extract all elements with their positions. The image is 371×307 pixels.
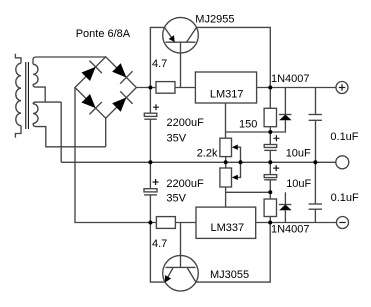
- bridge rectifier Ponte 6/8A : diamond edges: [75, 57, 136, 118]
- node ADJ+ junction dot: [268, 130, 272, 134]
- capacitor C4 10uF (bottom): [264, 162, 279, 192]
- svg-text:150: 150: [239, 119, 257, 131]
- wire secondary top lead to bridge AC top: [33, 57, 106, 64]
- svg-text:10uF: 10uF: [286, 148, 311, 160]
- svg-text:1N4007: 1N4007: [271, 224, 310, 236]
- node -output junction dot: [268, 221, 272, 225]
- diode D2 (bridge top-right): [112, 63, 132, 83]
- resistor R4 4.7 (bottom): [156, 217, 175, 229]
- wire R4 to LM337 input: [175, 222, 196, 224]
- transformer T1 secondary winding 1: [33, 64, 38, 84]
- diode D4 (bridge bottom-right): [112, 91, 132, 111]
- terminal - output: [337, 217, 349, 229]
- wire LM337 output to - terminal: [256, 222, 337, 224]
- node mid rail / 10uF junction dot: [268, 160, 272, 164]
- diode D6 1N4007 (bottom, output to adj): [279, 192, 292, 222]
- trimmer VR2 2.2k lower half: [220, 162, 241, 187]
- wire ADJ- branch to 150/diode/10uF node: [226, 191, 271, 193]
- svg-text:2200uF: 2200uF: [167, 117, 205, 129]
- wire Q1 collector to output node: [197, 27, 271, 87]
- wire Q2 collector to output node: [196, 223, 270, 283]
- node mid rail / wiper junction dot: [239, 160, 243, 164]
- wire LM317 ADJ down and branch: [225, 103, 227, 138]
- svg-text:LM337: LM337: [211, 222, 245, 234]
- svg-text:LM317: LM317: [210, 89, 244, 101]
- capacitor C5 0.1uF (top): [309, 88, 322, 163]
- transformer T1 secondary winding 2: [33, 104, 38, 124]
- wire Q1 base down to LM317 input: [180, 42, 182, 87]
- wire Q1 emitter to raw+ node: [150, 27, 164, 87]
- transformer T1 primary winding: [15, 54, 21, 138]
- regulator U1 LM317: [195, 72, 256, 103]
- node ADJ- junction dot: [268, 190, 272, 194]
- svg-text:MJ2955: MJ2955: [195, 13, 234, 25]
- capacitor C3 10uF (top): [264, 132, 279, 162]
- svg-text:MJ3055: MJ3055: [210, 269, 249, 281]
- wire mid rail 0V: [61, 161, 336, 163]
- diode D5 1N4007 (top, adj to output): [270, 88, 291, 133]
- diode D1 (bridge top-left): [82, 61, 102, 81]
- svg-text:0.1uF: 0.1uF: [330, 131, 358, 143]
- svg-text:2200uF: 2200uF: [166, 178, 204, 190]
- regulator U2 LM337: [196, 207, 256, 238]
- node mid rail / C1-C2 junction dot: [148, 160, 152, 164]
- transformer T1 core: [26, 62, 29, 129]
- svg-text:35V: 35V: [167, 132, 187, 144]
- capacitor C2 2200uF 35V (bottom): [144, 162, 159, 222]
- node mid rail / 0.1uF junction dot: [313, 160, 317, 164]
- svg-text:1N4007: 1N4007: [271, 73, 310, 85]
- capacitor C1 2200uF 35V (top): [144, 88, 159, 163]
- transistor Q1 MJ2955: [163, 17, 199, 53]
- node mid rail / trimmer junction dot: [224, 160, 228, 164]
- transistor Q2 MJ3055: [163, 255, 199, 291]
- trimmer VR1 2.2k upper half: [220, 138, 241, 162]
- node +output junction dot: [268, 86, 272, 90]
- wire bridge + corner to input node: [136, 87, 156, 89]
- wire Q2 emitter to raw- node: [150, 223, 165, 283]
- svg-text:Ponte 6/8A: Ponte 6/8A: [76, 28, 131, 40]
- svg-text:4.7: 4.7: [152, 58, 167, 70]
- wire secondary bottom lead to bridge AC bottom: [33, 123, 106, 146]
- svg-text:0.1uF: 0.1uF: [331, 192, 359, 204]
- wire R1 to LM317 input: [175, 87, 195, 89]
- terminal + output: [336, 82, 348, 94]
- wire center tap (secondary winding joints): [33, 84, 61, 162]
- diode D3 (bridge bottom-left): [82, 94, 102, 114]
- svg-text:35V: 35V: [166, 192, 186, 204]
- terminal 0V common: [336, 156, 349, 169]
- wire Q2 base up to LM337 input: [180, 223, 182, 268]
- node raw+ junction dot: [148, 86, 152, 90]
- wire trimmer bottom to LM337 ADJ: [225, 187, 227, 207]
- resistor R3 150 (bottom): [264, 192, 276, 222]
- wire bridge bottom corner down: [105, 118, 107, 147]
- resistor R1 4.7 (top): [156, 82, 175, 94]
- svg-text:4.7: 4.7: [152, 238, 167, 250]
- svg-text:10uF: 10uF: [286, 178, 311, 190]
- capacitor C6 0.1uF (bottom): [309, 162, 322, 222]
- wire ADJ+ branch to 150/diode/10uF node: [226, 131, 271, 133]
- node raw- junction dot: [148, 221, 152, 225]
- wire raw negative: bridge left corner down to bottom rail: [75, 88, 156, 223]
- resistor R2 150 (top): [264, 88, 276, 133]
- svg-text:2.2k: 2.2k: [197, 147, 218, 159]
- wire LM317 output to + terminal: [257, 87, 336, 89]
